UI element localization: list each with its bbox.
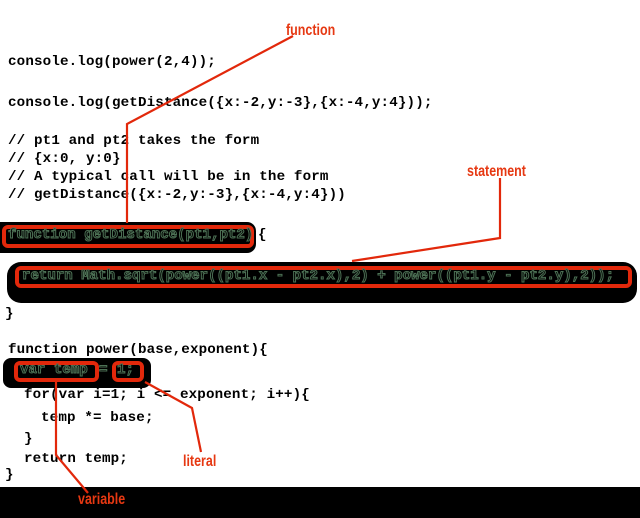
outlined code text: var temp xyxy=(20,363,88,377)
black bottom band xyxy=(0,487,640,518)
red box around var temp xyxy=(14,361,99,382)
closing brace of power xyxy=(5,468,14,482)
outlined code text: function getDistance(pt1,pt2) xyxy=(8,228,253,242)
comment line 3 xyxy=(8,170,329,184)
label function xyxy=(286,23,335,39)
code line for loop xyxy=(24,388,310,402)
black highlight bar 2 (return statement) xyxy=(7,262,637,303)
connector: var temp box to variable label xyxy=(56,382,88,493)
code line temp *= base xyxy=(41,411,154,425)
code line closing brace of for xyxy=(24,432,33,446)
red box around return statement xyxy=(15,266,632,288)
label statement xyxy=(467,164,526,180)
comment line 4 xyxy=(8,188,346,202)
open brace after box xyxy=(258,228,267,242)
comment line 2 xyxy=(8,152,121,166)
label literal xyxy=(183,454,216,470)
label variable xyxy=(78,492,125,508)
red box around 1; xyxy=(112,361,144,382)
outlined code text: 1; xyxy=(117,363,134,377)
outlined code text: return Math.sqrt(...) xyxy=(22,269,614,283)
code line 2 console.log(getDistance) xyxy=(8,96,433,110)
connector: function label to bar1 xyxy=(127,36,293,223)
connector: 1; box to literal label xyxy=(145,382,201,452)
black highlight bar 1 (function getDistance) xyxy=(0,222,256,253)
code line 1 console.log(power) xyxy=(8,55,216,69)
equals sign xyxy=(99,363,107,377)
code line return temp xyxy=(24,452,128,466)
comment line 1 xyxy=(8,134,259,148)
code line function power xyxy=(8,343,268,357)
red box around function getDistance(pt1,pt2) xyxy=(2,225,254,248)
black highlight bar 3 (var temp = 1;) xyxy=(3,358,151,388)
connector: statement label to bar2 xyxy=(352,178,500,261)
closing brace of getDistance xyxy=(5,307,14,321)
